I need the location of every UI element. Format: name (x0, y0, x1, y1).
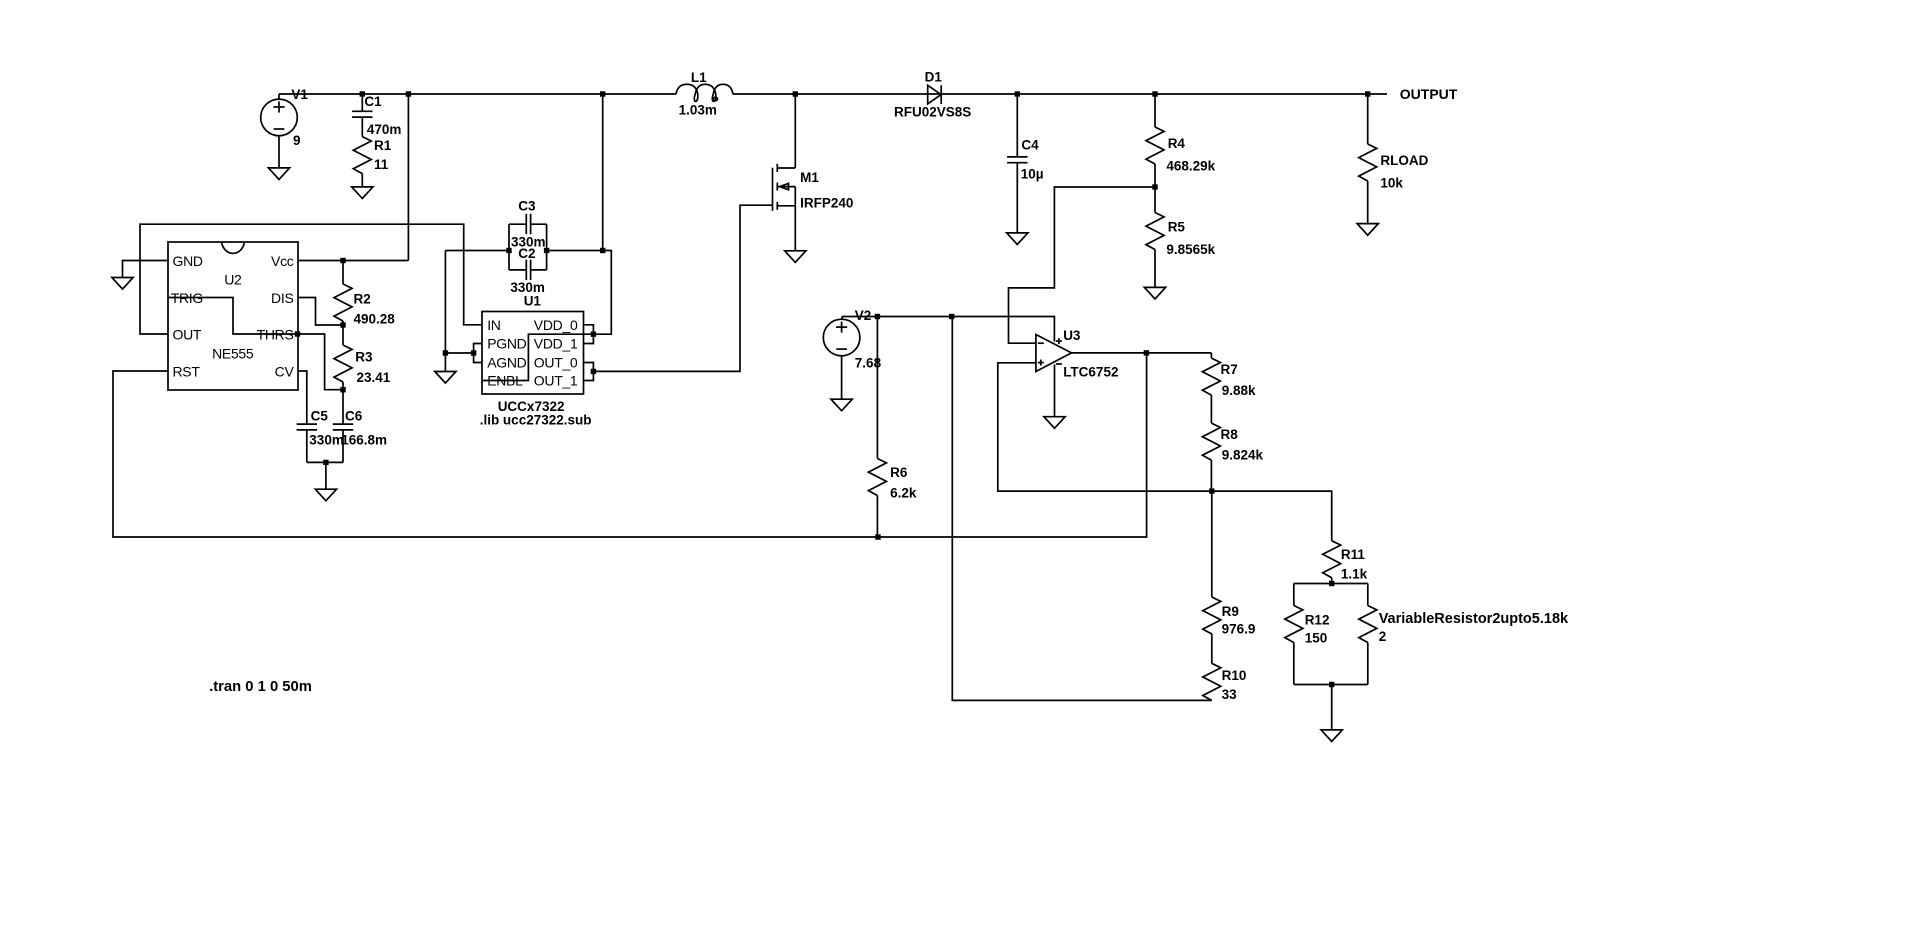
svg-text:470m: 470m (367, 122, 402, 137)
resistor R7 (1210, 353, 1212, 358)
wire Vcc horizontal to U2 (298, 260, 408, 262)
diode D1 RFU02VS8S (928, 85, 941, 104)
wire TRIG to THRS (168, 298, 298, 335)
svg-text:9.88k: 9.88k (1222, 383, 1256, 398)
svg-text:VDD_1: VDD_1 (534, 336, 578, 352)
voltage source V2 (841, 317, 843, 320)
svg-text:9: 9 (293, 133, 301, 148)
ground (R12/VariableResistor2) (1321, 730, 1342, 742)
wire U3 output (1072, 352, 1212, 354)
svg-text:33: 33 (1222, 687, 1238, 702)
node junction THRS pin (295, 331, 300, 336)
wire top rail right segment (L1 to OUTPUT) (733, 93, 1387, 95)
svg-text:OUT_0: OUT_0 (534, 355, 578, 371)
resistor R6 (876, 317, 878, 459)
wire C2/C3 left side vertical (508, 224, 510, 270)
svg-text:U1: U1 (524, 294, 542, 309)
wire U2 GND pin to ground (123, 261, 169, 278)
svg-text:RLOAD: RLOAD (1380, 153, 1428, 168)
svg-text:R5: R5 (1168, 220, 1186, 235)
svg-text:AGND: AGND (487, 355, 526, 371)
node junction C4 top rail (1015, 91, 1020, 96)
wire C2/C3 right side vertical (546, 224, 548, 270)
node junction R6 top (875, 314, 880, 319)
svg-text:CV: CV (275, 364, 295, 380)
wire C2/C3 right to VDD feed (547, 250, 603, 252)
svg-text:C1: C1 (364, 94, 382, 109)
svg-text:2: 2 (1379, 629, 1387, 644)
svg-text:10k: 10k (1380, 176, 1403, 191)
resistor R11 (1323, 541, 1341, 578)
transistor M1 IRFP240 (NMOS) (794, 94, 796, 168)
wire V2 rail to comparator V+ pin (842, 317, 1054, 342)
ground (V1) (268, 168, 289, 180)
svg-text:RFU02VS8S: RFU02VS8S (894, 105, 971, 120)
svg-text:R10: R10 (1222, 668, 1247, 683)
svg-text:9.8565k: 9.8565k (1166, 242, 1215, 257)
node junction VDD drop / C2C3 (600, 248, 605, 253)
wire U1 output to M1 gate (593, 205, 772, 371)
wire junction to R11 (1212, 491, 1332, 541)
wire Vcc feed vertical from top rail to U2 Vcc (407, 94, 409, 261)
svg-text:R11: R11 (1341, 547, 1366, 562)
svg-text:VariableResistor2upto5.18k: VariableResistor2upto5.18k (1379, 611, 1569, 627)
IC U2 NE555 body (168, 242, 298, 390)
resistor RLOAD (1367, 94, 1369, 144)
svg-text:R4: R4 (1168, 136, 1186, 151)
wire THRS to R3 bottom / C6 top (298, 334, 343, 390)
svg-text:1.03m: 1.03m (679, 103, 717, 118)
svg-text:23.41: 23.41 (357, 370, 391, 385)
svg-text:6.2k: 6.2k (890, 486, 917, 501)
ground (M1 source) (785, 251, 806, 263)
op-amp U3 LTC6752 (1036, 335, 1072, 372)
node junction R2/R3/DIS (340, 322, 345, 327)
svg-text:OUTPUT: OUTPUT (1400, 86, 1458, 102)
ground (C4) (1007, 233, 1028, 245)
node junction R6 bottom on RST rail (875, 534, 880, 539)
svg-text:OUT_1: OUT_1 (534, 373, 578, 389)
wire top rail left segment (V1 to L1) (279, 93, 676, 95)
svg-text:U2: U2 (224, 272, 242, 288)
wire C2/C3 left to ground net (445, 250, 509, 252)
node junction PGND/AGND bracket (471, 350, 476, 355)
svg-text:C2: C2 (518, 246, 535, 261)
svg-text:R6: R6 (890, 465, 908, 480)
svg-text:R2: R2 (354, 292, 371, 307)
ground (U1) (435, 372, 456, 384)
wire CV to C5 (298, 371, 307, 424)
wire C5/C6 bottoms joined (307, 461, 343, 463)
wire C2/C3 left plate down to U1 ground node (444, 251, 446, 354)
svg-text:OUT: OUT (173, 327, 202, 343)
node junction V2 rail / R10 return (949, 314, 954, 319)
node junction OUT bracket (591, 369, 596, 374)
node junction R3 bottom / C6 (340, 387, 345, 392)
IC U1 UCCx7322 body (482, 312, 584, 395)
node junction C2/C3 right (544, 248, 549, 253)
svg-text:1.1k: 1.1k (1341, 567, 1368, 582)
wire VDD feed into U1 VDD pins (593, 251, 611, 335)
svg-text:C6: C6 (345, 408, 363, 423)
resistor R2 (342, 261, 344, 285)
wire OUT_0/OUT_1 bracket (584, 363, 594, 381)
node junction VDD bracket (591, 332, 596, 337)
svg-text:10µ: 10µ (1021, 166, 1044, 181)
wire U2 OUT to U1 IN (140, 224, 482, 334)
node junction M1 drain at top rail (793, 91, 798, 96)
inductor L1 (676, 84, 733, 101)
svg-text:PGND: PGND (487, 336, 526, 352)
node junction R4 top rail (1152, 91, 1157, 96)
capacitor C5 (297, 423, 317, 425)
wire top rail drop to VDD node (602, 94, 604, 251)
capacitor C6 (342, 390, 344, 424)
capacitor C1 (361, 94, 363, 111)
node junction Vcc vertical at top rail (406, 91, 411, 96)
wire bracket to ground node (445, 352, 473, 354)
svg-text:M1: M1 (800, 170, 819, 185)
svg-text:R9: R9 (1222, 604, 1239, 619)
svg-text:R7: R7 (1221, 362, 1238, 377)
svg-text:LTC6752: LTC6752 (1063, 365, 1118, 380)
svg-text:IN: IN (487, 317, 500, 333)
wire to ground (C5/C6) (325, 462, 327, 489)
voltage source V1 (278, 94, 280, 99)
ground (RLOAD) (1357, 224, 1378, 236)
svg-text:R12: R12 (1305, 613, 1330, 628)
node junction C1 top rail (360, 91, 365, 96)
svg-text:C3: C3 (518, 199, 536, 214)
node junction R8 bottom / plus input / R11 (1209, 488, 1214, 493)
resistor R4 (1154, 94, 1156, 127)
svg-text:976.9: 976.9 (1222, 622, 1256, 637)
resistor VariableResistor2upto5.18k (1367, 584, 1369, 606)
node junction RLOAD top rail (1365, 91, 1370, 96)
resistor R12 (1293, 584, 1295, 606)
resistor R5 (1154, 187, 1156, 213)
svg-text:166.8m: 166.8m (341, 433, 387, 448)
svg-text:GND: GND (173, 253, 203, 269)
svg-text:468.29k: 468.29k (1166, 158, 1215, 173)
svg-text:.tran 0 1 0 50m: .tran 0 1 0 50m (209, 679, 312, 695)
svg-text:RST: RST (173, 364, 201, 380)
wire parallel pair top edge (1294, 583, 1368, 585)
svg-text:DIS: DIS (271, 290, 293, 306)
svg-text:Vcc: Vcc (271, 253, 294, 269)
ground (U2 GND) (112, 278, 133, 290)
wire DIS to R2 bottom (298, 298, 343, 326)
svg-text:U3: U3 (1063, 328, 1081, 343)
resistor R3 (342, 325, 344, 345)
node junction U1 ground node (443, 350, 448, 355)
node junction U3 output / feedback (1144, 350, 1149, 355)
svg-text:490.28: 490.28 (354, 312, 396, 327)
svg-text:C5: C5 (311, 408, 329, 423)
svg-text:C4: C4 (1021, 137, 1039, 152)
wire U3 plus input network (998, 363, 1212, 491)
node junction C5-C6 bottom (323, 460, 328, 465)
resistor R1 (353, 137, 371, 174)
svg-text:L1: L1 (691, 70, 707, 85)
ground (U3) (1044, 417, 1065, 429)
ground (V2) (831, 399, 852, 411)
wire divider tap to comparator minus input (1009, 187, 1156, 343)
svg-text:VDD_0: VDD_0 (534, 317, 578, 333)
wire U3 V- pin to ground (1054, 365, 1056, 417)
wire PGND/AGND bracket (474, 344, 482, 363)
svg-text:330m: 330m (309, 433, 344, 448)
node junction top rail VDD drop (600, 91, 605, 96)
svg-text:D1: D1 (925, 70, 943, 85)
svg-text:R3: R3 (355, 350, 373, 365)
resistor R8 (1202, 423, 1220, 460)
wire parallel pair to ground (1331, 685, 1333, 730)
wire VDD_0/VDD_1 bracket (584, 325, 594, 344)
wire U1 ground node to ground (444, 353, 446, 372)
svg-text:11: 11 (374, 157, 389, 172)
svg-text:.lib ucc27322.sub: .lib ucc27322.sub (480, 413, 592, 428)
svg-text:9.824k: 9.824k (1222, 448, 1264, 463)
node junction C2/C3 left (506, 248, 511, 253)
svg-text:150: 150 (1305, 631, 1328, 646)
svg-text:IRFP240: IRFP240 (800, 195, 853, 210)
node junction R4/R5 midpoint (1152, 184, 1157, 189)
svg-text:R1: R1 (374, 138, 392, 153)
ground (R5) (1144, 287, 1165, 299)
node junction R2 top on Vcc wire (340, 258, 345, 263)
svg-text:R8: R8 (1221, 427, 1239, 442)
wire R10 bottom return to V2 rail (952, 317, 1212, 701)
resistor R10 (1203, 663, 1221, 700)
capacitor C2 (horizontal, bottom branch) (509, 269, 526, 271)
wire parallel pair bottom edge (1294, 684, 1368, 686)
ground (C5/C6) (315, 489, 336, 501)
node junction R11 bottom / parallel pair top (1329, 581, 1334, 586)
svg-text:NE555: NE555 (212, 345, 254, 361)
wire ENBL tied to VDD (482, 334, 593, 380)
capacitor C3 (horizontal, top branch) (509, 223, 526, 225)
node junction parallel pair bottom (1329, 682, 1334, 687)
ground (R1) (352, 187, 373, 199)
svg-text:V1: V1 (291, 87, 308, 102)
capacitor C4 (1016, 94, 1018, 157)
resistor R9 (1211, 491, 1213, 597)
wire U2 RST to comparator output rail (113, 353, 1147, 537)
